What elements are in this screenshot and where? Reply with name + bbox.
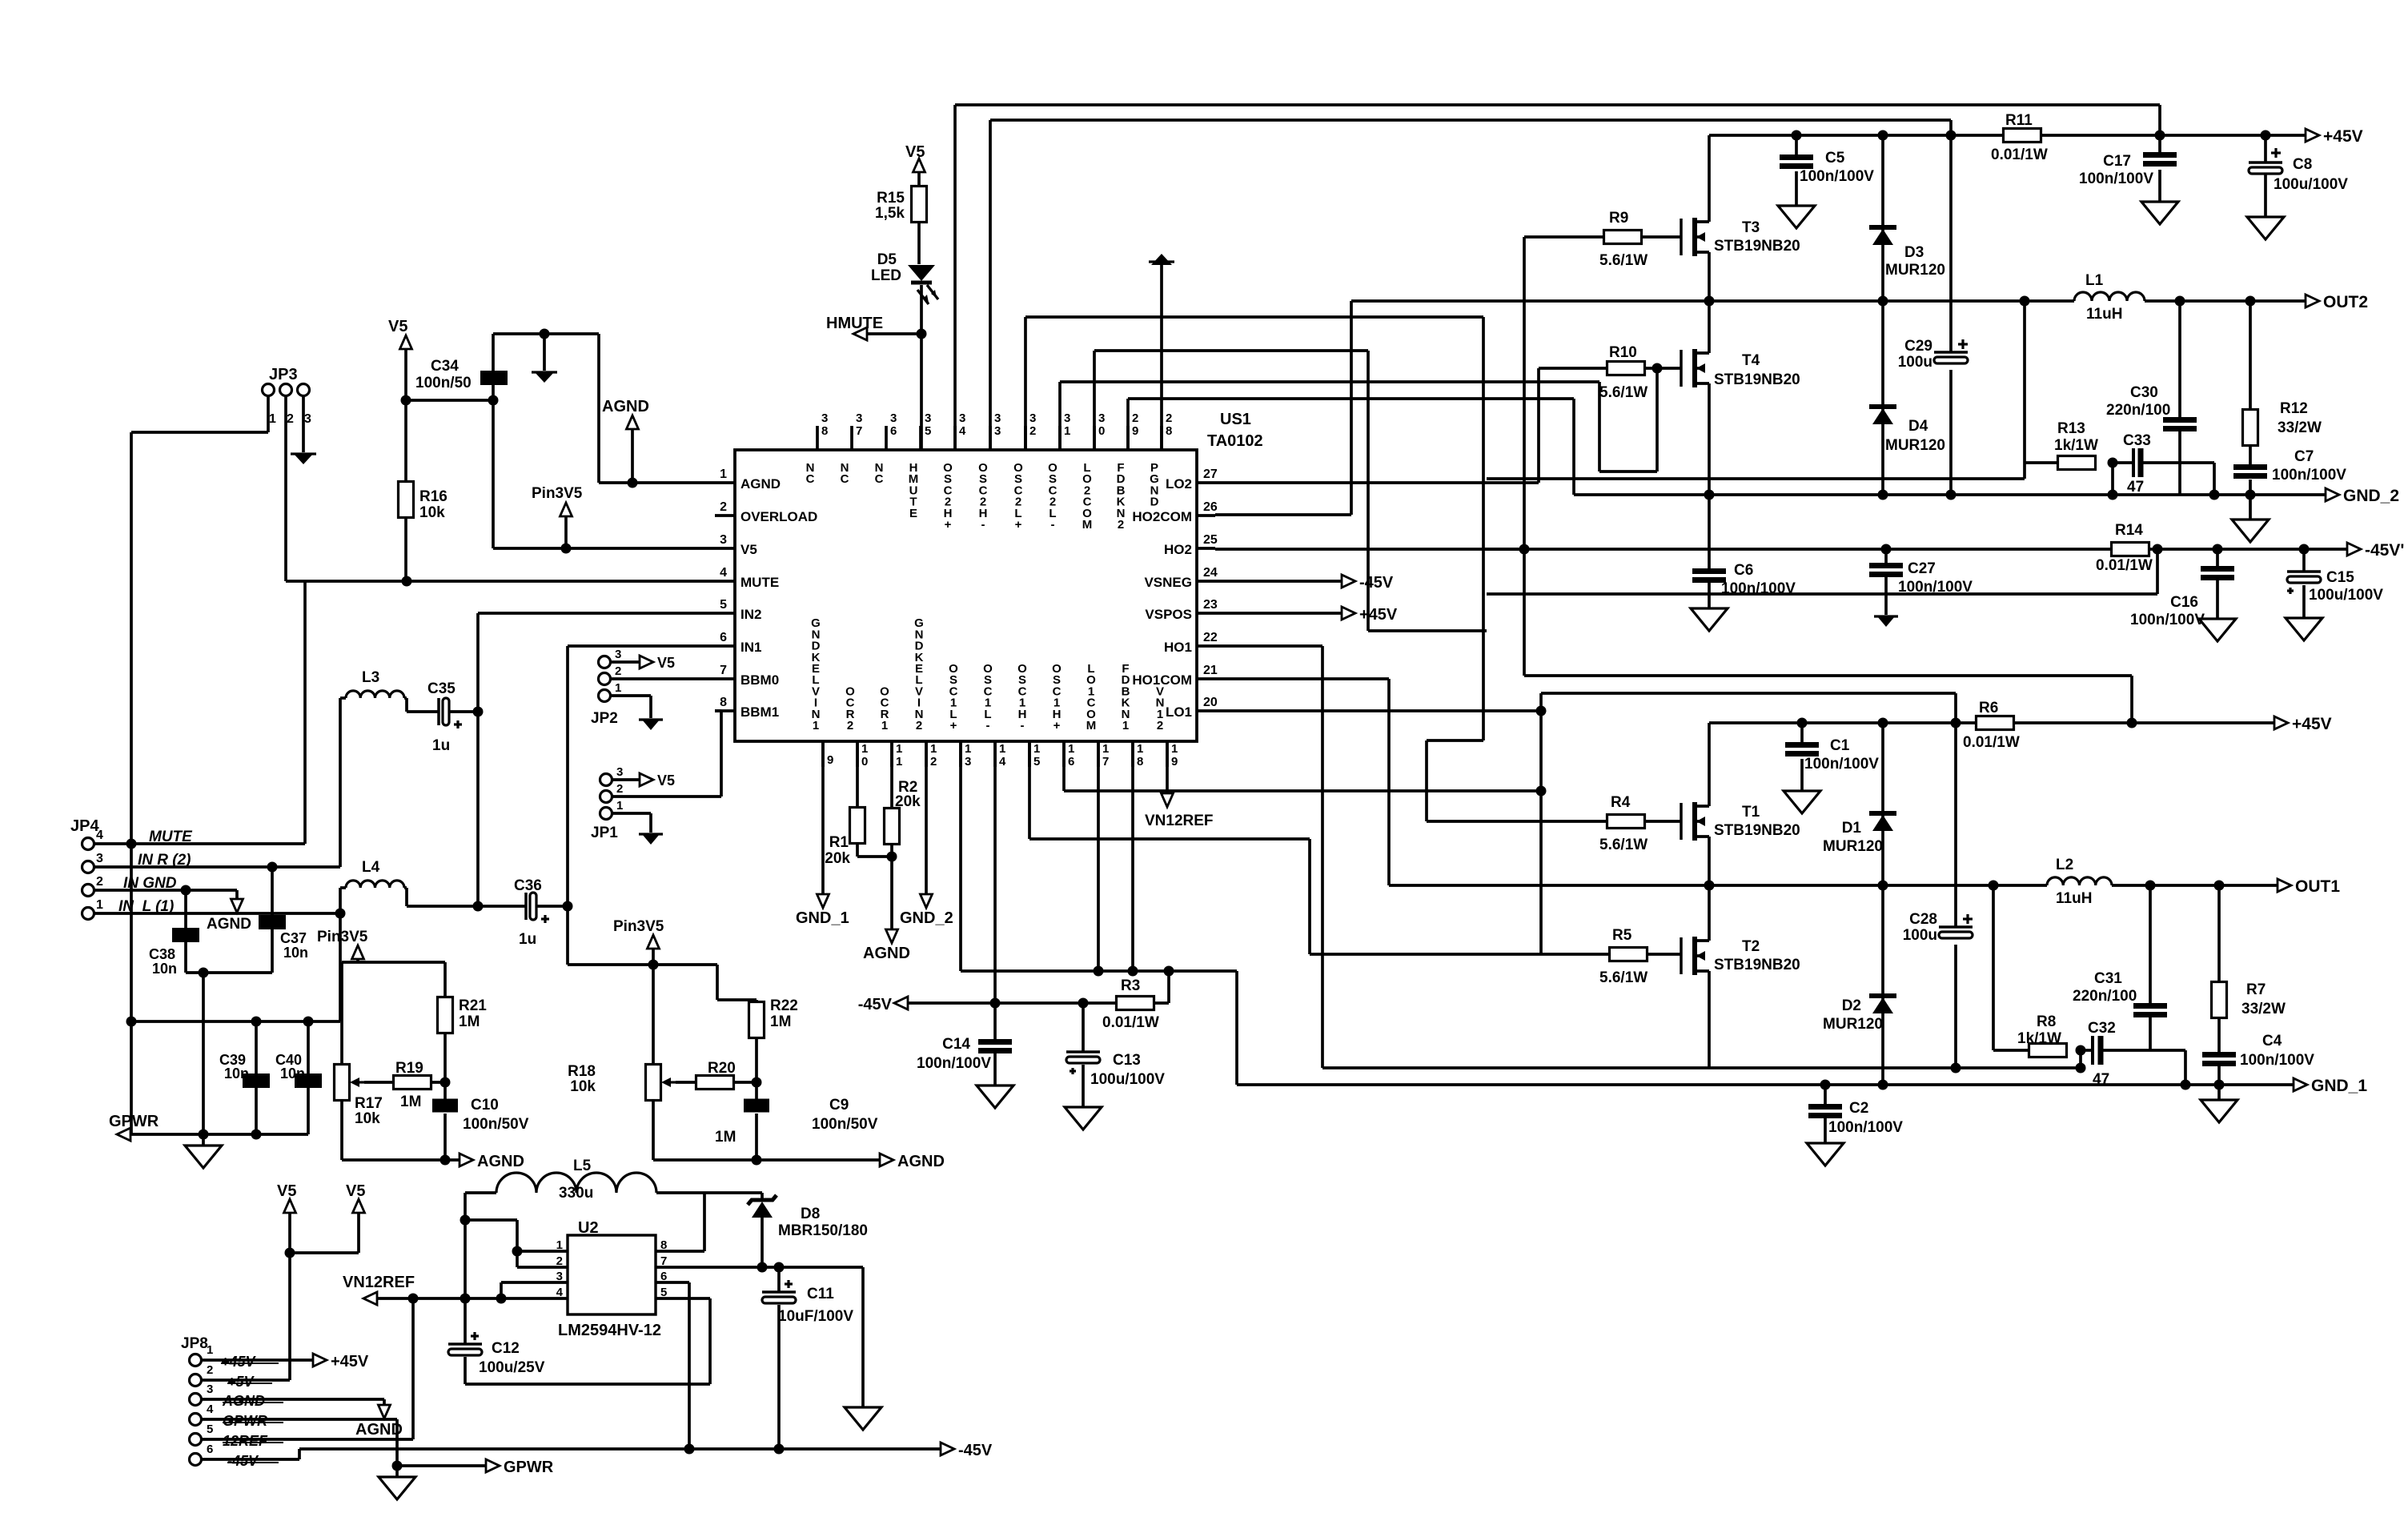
wire pin15 to R5 (1029, 741, 1609, 954)
IC pin 36 NC stub, number and name (875, 411, 897, 486)
power arrow below C34 row (532, 334, 557, 383)
svg-text:R4: R4 (1611, 794, 1631, 811)
svg-text:100n/100V: 100n/100V (1898, 579, 1973, 596)
wire C16 column (2216, 549, 2219, 619)
junction L5 left taps (460, 1215, 471, 1226)
inductor L5 330u (465, 1158, 704, 1202)
svg-text:100u/25V: 100u/25V (479, 1359, 545, 1376)
resistor R9 5.6/1W (1599, 210, 1647, 269)
svg-text:5: 5 (1033, 755, 1040, 768)
svg-text:C28: C28 (1909, 911, 1937, 928)
inductor L4 (340, 859, 407, 888)
wire R13 jog to left line (1487, 463, 2025, 479)
svg-text:LO1: LO1 (1166, 704, 1192, 720)
diode D2 MUR120 (1823, 885, 1896, 1085)
svg-text:3: 3 (1098, 411, 1105, 425)
svg-text:5: 5 (207, 1423, 213, 1436)
svg-text:C12: C12 (492, 1340, 520, 1357)
potentiometer R17 10k (335, 1065, 383, 1128)
junction dots +45V rail ch1 (1797, 718, 2137, 728)
svg-text:OUT2: OUT2 (2323, 293, 2368, 311)
ground arrow GND_1 pin9 (796, 741, 849, 927)
svg-text:3: 3 (96, 852, 103, 865)
svg-text:VN12REF: VN12REF (343, 1274, 415, 1291)
svg-text:L3: L3 (362, 669, 379, 686)
svg-text:JP3: JP3 (269, 366, 298, 383)
wire C37/C38 tie (186, 971, 272, 974)
svg-text:100n/100V: 100n/100V (1800, 168, 1874, 185)
svg-text:R6: R6 (1979, 700, 1998, 716)
capacitor C17 100n/100V (2079, 152, 2177, 187)
ground under C2 (1807, 1143, 1844, 1166)
IC pin 12 GNDKELVIN2 stub, number and name (914, 616, 937, 768)
wire R4 to T1 gate (1645, 820, 1681, 823)
svg-text:100u/100V: 100u/100V (2274, 176, 2348, 193)
svg-text:1u: 1u (432, 737, 450, 754)
svg-text:9: 9 (827, 753, 833, 767)
svg-text:2: 2 (207, 1363, 213, 1377)
junction dots +45V rail (1792, 130, 2271, 141)
svg-text:1M: 1M (715, 1129, 736, 1146)
junction D8 pin7 (757, 1262, 768, 1273)
wire T3 drain (1708, 135, 1711, 222)
svg-text:AGND: AGND (602, 398, 649, 415)
wire JP3 pin2 to MUTE line (284, 396, 287, 581)
wire ground stub under C4 (2217, 1085, 2221, 1100)
capacitor C1 100n/100V (1785, 737, 1879, 773)
svg-text:D: D (1150, 496, 1159, 509)
net +45V arrow jp8 (201, 1353, 369, 1370)
svg-text:L4: L4 (362, 859, 380, 876)
wire U2 pin1 row (517, 1250, 568, 1253)
svg-text:GND_1: GND_1 (796, 909, 849, 927)
net +45V arrow channel 1 (2274, 715, 2332, 733)
wire LO1 to x1925 (1215, 709, 1541, 712)
wire R20 to C9 node (734, 1081, 757, 1084)
net GND_2 arrow (2326, 487, 2399, 505)
ground under C5 (1778, 206, 1815, 228)
svg-text:+45V: +45V (2323, 127, 2363, 146)
ground under C15 (2286, 618, 2322, 640)
svg-text:R16: R16 (419, 488, 447, 505)
wire T2 drain (1708, 885, 1711, 941)
junction V5/C34 row (401, 395, 499, 406)
net -45V arrow channel 1 (858, 996, 908, 1013)
svg-text:MUR120: MUR120 (1823, 838, 1883, 855)
net -45V arrow at VSNEG pin (1215, 574, 1394, 592)
svg-text:+: + (950, 719, 957, 732)
svg-text:R12: R12 (2280, 400, 2308, 417)
svg-text:C32: C32 (2088, 1020, 2116, 1037)
IC U2 LM2594HV-12 (556, 1219, 668, 1339)
svg-text:C16: C16 (2170, 594, 2198, 611)
svg-text:100n/100V: 100n/100V (1804, 756, 1879, 773)
wire pin32 to R4 path (1025, 317, 1607, 821)
wire R12 column (2249, 301, 2252, 520)
svg-text:GPWR: GPWR (223, 1413, 267, 1429)
capacitor C40 10n (275, 1052, 322, 1088)
svg-text:V5: V5 (740, 542, 757, 557)
svg-text:R5: R5 (1612, 927, 1632, 944)
potentiometer R18 10k (568, 1063, 676, 1101)
capacitor C11 10uF/100V (762, 1280, 853, 1325)
ground arrow AGND below R2 (863, 929, 910, 962)
svg-text:R14: R14 (2115, 522, 2143, 539)
wire HO2COM to OUT2 (1215, 513, 1351, 516)
wire pin31 to R10 line (1060, 368, 1657, 472)
wire HO2 to R9 (1215, 237, 1604, 549)
IC pin 28 PGND stub, number and name (1150, 411, 1172, 509)
wire T3 source (1708, 252, 1711, 301)
wire V5 to R15 (917, 172, 921, 187)
svg-text:R17: R17 (355, 1095, 383, 1112)
wire IN1 line (568, 646, 715, 906)
net label 12REF jp8 (223, 1433, 283, 1449)
svg-text:C34: C34 (431, 358, 459, 375)
svg-text:C33: C33 (2123, 432, 2151, 449)
junction R20/R22/C9 (752, 1078, 762, 1088)
junction C38 top (181, 885, 191, 896)
wire -45V line channel 1 (908, 1001, 1117, 1005)
svg-text:C9: C9 (829, 1097, 849, 1114)
power label V5 above R15 (905, 143, 925, 172)
svg-text:BBM1: BBM1 (740, 704, 779, 720)
svg-text:-: - (1051, 518, 1055, 532)
resistor R11 0.01/1W (1991, 112, 2048, 163)
power label V5 above R16 (388, 318, 412, 349)
svg-text:1: 1 (269, 412, 276, 426)
svg-text:100u/100V: 100u/100V (2309, 587, 2383, 604)
wire AGND row to pin1 (599, 481, 715, 484)
svg-text:C11: C11 (807, 1286, 834, 1302)
wire C36 to IN1 column (536, 905, 568, 908)
svg-text:2: 2 (96, 875, 103, 889)
wire C6 column (1708, 495, 1711, 608)
IC pin 31 OSC2L- stub, number and name (1048, 411, 1070, 532)
svg-text:0: 0 (861, 755, 868, 768)
net label IN R (2) (138, 852, 191, 869)
IC pin 7 BBM0 stub and label (715, 664, 779, 688)
transistor T4 STB19NB20 (1681, 349, 1800, 388)
svg-text:C37: C37 (280, 930, 307, 946)
junction C36 IN1 (563, 901, 573, 912)
IC pin 35 HMUTE stub, number and name (909, 411, 932, 520)
wire R15 to D5 (917, 222, 921, 264)
junction dots OUT1 (1704, 881, 2225, 891)
svg-text:D2: D2 (1842, 997, 1861, 1014)
wire D5 to pin 35 (920, 285, 923, 450)
svg-text:LED: LED (871, 267, 901, 284)
junction tie to GPWR (199, 968, 209, 978)
svg-text:4: 4 (96, 829, 103, 842)
svg-text:20k: 20k (825, 850, 850, 867)
wire IN2 line (478, 613, 715, 906)
ground under C8 (2247, 217, 2284, 239)
svg-text:-45V': -45V' (2365, 541, 2404, 560)
wire C31 column (2149, 885, 2152, 1050)
wire C8 column (2264, 135, 2267, 217)
svg-text:3: 3 (1029, 411, 1036, 425)
svg-text:AGND: AGND (222, 1393, 265, 1409)
inductor L3 (340, 669, 407, 698)
svg-text:1: 1 (207, 1343, 213, 1357)
svg-text:R20: R20 (708, 1060, 736, 1077)
ground under GPWR (379, 1466, 415, 1499)
svg-text:1,5k: 1,5k (875, 205, 905, 222)
wire pin30 route (1094, 351, 1487, 631)
svg-text:R9: R9 (1609, 210, 1628, 227)
svg-text:JP1: JP1 (591, 825, 618, 841)
svg-text:C2: C2 (1849, 1100, 1868, 1117)
junction chassis tap (540, 329, 550, 339)
svg-text:LM2594HV-12: LM2594HV-12 (558, 1322, 661, 1339)
junction dots -45V row (1881, 544, 2310, 555)
transistor T3 STB19NB20 (1681, 218, 1800, 256)
svg-text:10n: 10n (152, 961, 177, 977)
wire x1925 vertical (1539, 693, 1543, 954)
svg-text:3: 3 (890, 411, 897, 425)
wire -45V jog line (1487, 549, 2157, 594)
IC pin 22 HO1 stub and label (1164, 631, 1218, 655)
net label +45V jp8 (221, 1354, 279, 1370)
svg-text:AGND: AGND (477, 1153, 524, 1170)
svg-text:GND_2: GND_2 (2343, 487, 2399, 505)
svg-text:1: 1 (1122, 719, 1129, 732)
svg-text:100u: 100u (1903, 927, 1937, 944)
wire C27 column (1884, 549, 1888, 615)
svg-text:V5: V5 (905, 143, 925, 161)
IC pin 10 OCR2 stub, number and name (845, 684, 868, 768)
capacitor C5 100n/100V (1780, 150, 1874, 185)
wire IN R row (94, 865, 340, 869)
wire R3 to GND_1 line (1154, 971, 1169, 1003)
svg-text:HO2: HO2 (1164, 542, 1192, 557)
svg-text:STB19NB20: STB19NB20 (1714, 957, 1800, 973)
svg-text:R15: R15 (877, 190, 905, 207)
svg-text:C: C (806, 472, 815, 486)
svg-text:1: 1 (896, 755, 902, 768)
svg-text:C15: C15 (2326, 569, 2354, 586)
svg-text:20: 20 (1203, 696, 1218, 709)
svg-text:1M: 1M (770, 1013, 791, 1030)
wire L3 to C35 (407, 698, 439, 712)
svg-text:100n/100V: 100n/100V (1828, 1119, 1903, 1136)
wire L5 tap to U2 pin2 (465, 1218, 517, 1222)
capacitor C33 47 (2113, 432, 2214, 496)
wire U2 pin5 loop (465, 1298, 710, 1384)
svg-text:6: 6 (207, 1443, 213, 1456)
capacitor C30 220n/100 (2106, 384, 2197, 431)
svg-text:8: 8 (720, 696, 727, 709)
wire LO2 to R10 (1215, 368, 1607, 483)
svg-text:STB19NB20: STB19NB20 (1714, 238, 1800, 255)
svg-text:3: 3 (994, 411, 1001, 425)
svg-text:100n/100V: 100n/100V (2130, 612, 2205, 628)
svg-text:23: 23 (1203, 598, 1218, 612)
IC pin 29 FDBKN2 stub, number and name (1117, 411, 1139, 532)
junction dots GND_2 rail (1704, 490, 2256, 500)
IC pin 27 LO2 stub and label (1166, 468, 1218, 492)
junction IN_L to L4 column (335, 909, 346, 919)
wire pin34 to +45V rail right (955, 105, 2160, 450)
svg-text:6: 6 (720, 631, 727, 644)
wire L4 left column (339, 888, 342, 1021)
svg-text:100n/50V: 100n/50V (812, 1116, 878, 1133)
svg-text:R1: R1 (829, 834, 849, 851)
svg-text:1k/1W: 1k/1W (2017, 1030, 2061, 1047)
svg-text:R22: R22 (770, 997, 798, 1014)
resistor R12 33/2W (2243, 400, 2322, 446)
IC pin 9 GNDKELVIN1 stub, number and name (811, 616, 833, 767)
inductor L1 11uH (2074, 272, 2145, 323)
svg-text:C38: C38 (149, 946, 175, 962)
svg-text:26: 26 (1203, 500, 1218, 514)
svg-text:1M: 1M (459, 1013, 480, 1030)
wire C34 top row (493, 334, 599, 483)
wire C33 to GND_2 rail (2213, 463, 2216, 495)
junction Pin3V5 crossing (648, 960, 659, 970)
wire pin16 line (1064, 741, 1541, 791)
IC pin 19 VN12 stub, number and name (1156, 684, 1178, 768)
capacitor C38 10n (149, 928, 199, 977)
power label Pin3V5 left pot (317, 929, 368, 962)
jumper JP2 (591, 648, 715, 730)
svg-text:220n/100: 220n/100 (2106, 402, 2170, 419)
junction MUTE row (126, 839, 137, 849)
svg-text:AGND: AGND (897, 1153, 945, 1170)
svg-text:V5: V5 (657, 655, 675, 671)
svg-text:1: 1 (1102, 742, 1109, 756)
svg-text:R7: R7 (2246, 981, 2266, 998)
svg-text:1u: 1u (519, 931, 536, 948)
svg-text:BBM0: BBM0 (740, 672, 779, 688)
svg-text:3: 3 (994, 424, 1001, 438)
svg-text:AGND: AGND (863, 945, 910, 962)
IC pin 6 IN1 stub and label (715, 631, 761, 655)
svg-text:C10: C10 (471, 1097, 499, 1114)
power arrow below JP3 pin3 (291, 396, 316, 464)
wire VN12REF row U2 pin4 (377, 1297, 568, 1300)
svg-text:220n/100: 220n/100 (2073, 988, 2137, 1005)
svg-text:+45V: +45V (331, 1353, 369, 1370)
junction HO2 (1519, 544, 1530, 555)
net +45V arrow top right (2306, 127, 2363, 146)
IC pin 5 IN2 stub and label (715, 598, 761, 622)
ground under C14 (977, 1086, 1013, 1108)
svg-text:1: 1 (1064, 424, 1070, 438)
wire C12 column (464, 1298, 467, 1384)
svg-text:+45V: +45V (1359, 606, 1398, 624)
junction dots GND_1 line (1094, 966, 1174, 977)
junction R13 C33 (2108, 458, 2118, 468)
svg-text:0.01/1W: 0.01/1W (2096, 557, 2153, 574)
connector JP4 (70, 817, 103, 920)
svg-text:C27: C27 (1908, 560, 1936, 577)
wire C39 column (255, 1021, 258, 1134)
svg-text:V5: V5 (277, 1182, 296, 1200)
capacitor C34 100n/50 (415, 358, 508, 391)
svg-text:D4: D4 (1908, 418, 1928, 435)
wire R22 to R20 node (755, 1037, 758, 1082)
inductor L2 11uH (2047, 857, 2112, 907)
wire T4 drain (1708, 301, 1711, 353)
svg-text:C: C (875, 472, 884, 486)
wire +45V rail channel 1 (1709, 721, 2274, 724)
svg-text:E: E (909, 507, 917, 520)
wire pin18 down (1131, 741, 1134, 971)
junction C9 AGND (752, 1155, 762, 1166)
svg-text:+45V: +45V (2292, 715, 2332, 733)
svg-text:100u: 100u (1898, 354, 1932, 371)
IC pin 14 OSC1L- stub, number and name (983, 662, 1006, 768)
IC pin 34 OSC2H+ stub, number and name (943, 411, 966, 532)
net VN12REF arrow bottom (343, 1274, 415, 1305)
svg-text:-: - (981, 518, 985, 532)
ground arrow GND_2 pin12 (900, 741, 953, 927)
svg-text:C4: C4 (2262, 1033, 2282, 1049)
wire T1 drain (1708, 723, 1711, 806)
svg-text:1: 1 (930, 742, 937, 756)
junction GPWR ground (392, 1461, 403, 1471)
wire -45V row channel 2 (1485, 548, 2349, 551)
wire R1/R2 bottoms join (857, 843, 892, 930)
svg-text:-45V: -45V (1359, 574, 1394, 592)
svg-text:2: 2 (930, 755, 937, 768)
wire C40 column (307, 1021, 310, 1134)
svg-text:V5: V5 (346, 1182, 365, 1200)
svg-text:1: 1 (1171, 742, 1178, 756)
capacitor C9 100n/50V (744, 1097, 878, 1133)
svg-text:1: 1 (896, 742, 902, 756)
IC pin 26 HO2COM stub and label (1132, 500, 1218, 524)
svg-text:4: 4 (207, 1403, 214, 1416)
svg-text:C14: C14 (942, 1036, 970, 1053)
svg-text:OVERLOAD: OVERLOAD (740, 509, 817, 524)
svg-text:10k: 10k (570, 1078, 596, 1095)
power label Pin3V5 at pin3 (532, 485, 583, 548)
capacitor C27 100n/100V (1869, 560, 1973, 596)
diode D1 MUR120 (1823, 723, 1896, 885)
wire C38 column (184, 890, 187, 973)
svg-text:20k: 20k (895, 793, 921, 810)
transistor T1 STB19NB20 (1681, 802, 1800, 841)
capacitor C28 100u (1903, 911, 1973, 944)
net -45V arrow bottom (941, 1442, 993, 1459)
wire IN GND row (94, 889, 237, 892)
svg-text:1k/1W: 1k/1W (2054, 437, 2098, 454)
capacitor C13 100u/100V (1066, 1052, 1165, 1088)
svg-text:3: 3 (615, 648, 621, 661)
svg-text:2: 2 (615, 664, 621, 678)
capacitor C2 100n/100V (1808, 1100, 1903, 1136)
net -45V arrow channel 2 (2347, 541, 2404, 560)
wire R8 junction down (2079, 1050, 2082, 1068)
wire C30 column (2178, 301, 2181, 495)
svg-text:R13: R13 (2057, 420, 2085, 437)
svg-text:2: 2 (1118, 518, 1124, 532)
wire tie down to GPWR row (202, 973, 205, 1134)
wire C17 column (2158, 135, 2161, 202)
svg-text:L1: L1 (2085, 272, 2104, 289)
IC pin 16 OSC1H+ stub, number and name (1052, 662, 1074, 768)
svg-text:C: C (841, 472, 849, 486)
wire pin13 to GND_1 line (961, 741, 1237, 1085)
svg-text:IN1: IN1 (740, 640, 761, 655)
svg-text:2: 2 (1166, 411, 1172, 425)
svg-text:D8: D8 (801, 1206, 820, 1222)
svg-text:+45V: +45V (221, 1354, 257, 1370)
svg-text:0.01/1W: 0.01/1W (1991, 146, 2048, 163)
